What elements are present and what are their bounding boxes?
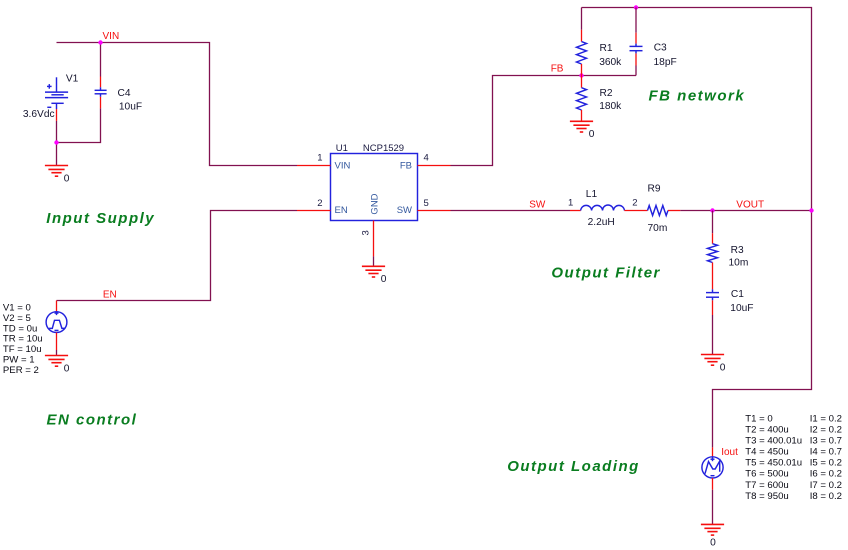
- node FB junction: [579, 73, 583, 77]
- wire VOUT rail: [680, 210, 811, 212]
- svg-text:V2 = 5: V2 = 5: [3, 313, 31, 324]
- pin 4: [418, 153, 451, 166]
- node C3 top junction: [634, 5, 638, 9]
- VPULSE parameters: [3, 303, 43, 376]
- wire battery to C4 bottom: [57, 108, 101, 142]
- node VOUT right rail junction: [809, 208, 813, 212]
- wire SW net: [451, 210, 571, 212]
- svg-text:5: 5: [424, 198, 429, 209]
- svg-text:R2: R2: [600, 88, 613, 99]
- svg-text:Input Supply: Input Supply: [46, 210, 155, 227]
- svg-text:0: 0: [710, 538, 716, 549]
- wire R3 branch: [712, 211, 714, 234]
- svg-text:10uF: 10uF: [119, 101, 142, 112]
- wire C4 top branch: [100, 43, 102, 77]
- current source Iout: [702, 447, 723, 524]
- svg-text:2: 2: [632, 197, 637, 208]
- svg-text:2: 2: [317, 198, 322, 209]
- svg-text:Output Filter: Output Filter: [551, 265, 661, 282]
- svg-text:0: 0: [720, 362, 726, 373]
- svg-text:10m: 10m: [729, 258, 749, 269]
- svg-text:EN: EN: [335, 205, 348, 216]
- svg-text:GND: GND: [370, 193, 381, 214]
- svg-text:T3 = 400.01u: T3 = 400.01u: [745, 436, 802, 447]
- svg-text:SW: SW: [397, 205, 412, 216]
- Iout parameters: [745, 413, 842, 502]
- wire C3 bottom lead: [635, 66, 637, 76]
- svg-text:EN: EN: [103, 289, 117, 300]
- pin 1: [297, 153, 331, 166]
- pin 2: [297, 198, 331, 211]
- svg-text:V1: V1: [66, 73, 79, 84]
- resistor R3: [708, 233, 718, 289]
- pin 3: [361, 221, 374, 267]
- ground 0 (Iout): [701, 524, 724, 548]
- svg-text:I8 = 0.2: I8 = 0.2: [810, 491, 842, 502]
- svg-text:4: 4: [424, 153, 429, 164]
- svg-text:VIN: VIN: [103, 31, 120, 42]
- svg-text:C3: C3: [654, 43, 667, 54]
- svg-text:1: 1: [568, 197, 573, 208]
- resistor R9: [648, 206, 681, 216]
- wire VIN rail: [57, 43, 298, 166]
- svg-text:T6 = 500u: T6 = 500u: [745, 469, 788, 480]
- wire C3 top lead: [635, 8, 637, 33]
- svg-text:R1: R1: [600, 43, 613, 54]
- capacitor C4: [95, 77, 107, 109]
- wire FB net: [451, 76, 637, 166]
- wire battery bottom to ground: [56, 121, 58, 166]
- svg-text:I6 = 0.2: I6 = 0.2: [810, 469, 842, 480]
- svg-text:I1 = 0.2: I1 = 0.2: [810, 413, 842, 424]
- svg-text:I2 = 0.2: I2 = 0.2: [810, 424, 842, 435]
- svg-text:18pF: 18pF: [654, 57, 677, 68]
- svg-text:T1 = 0: T1 = 0: [745, 413, 772, 424]
- ground 0 (C1): [701, 355, 726, 374]
- voltage source VPULSE EN: [46, 301, 67, 356]
- svg-text:U1: U1: [336, 143, 348, 154]
- svg-text:PW = 1: PW = 1: [3, 354, 35, 365]
- svg-text:FB: FB: [400, 160, 412, 171]
- svg-text:3: 3: [361, 230, 372, 235]
- inductor L1: [570, 205, 648, 211]
- svg-text:FB: FB: [551, 64, 564, 75]
- svg-text:R3: R3: [731, 245, 744, 256]
- svg-text:I4 = 0.7: I4 = 0.7: [810, 447, 842, 458]
- svg-text:70m: 70m: [648, 223, 668, 234]
- svg-text:NCP1529: NCP1529: [363, 143, 404, 154]
- ground 0 (V1): [45, 166, 70, 185]
- svg-text:Output Loading: Output Loading: [507, 458, 640, 475]
- ground 0 (VPULSE): [45, 356, 70, 375]
- svg-text:TR = 10u: TR = 10u: [3, 334, 43, 345]
- ground 0 (FB divider): [570, 121, 595, 140]
- ground 0 (U1 pin3): [362, 266, 387, 285]
- node VIN junction: [98, 40, 102, 44]
- svg-text:T4 = 450u: T4 = 450u: [745, 447, 788, 458]
- svg-text:Iout: Iout: [721, 447, 738, 458]
- svg-text:C1: C1: [731, 289, 744, 300]
- svg-text:0: 0: [381, 274, 387, 285]
- svg-text:1: 1: [317, 153, 322, 164]
- svg-text:360k: 360k: [599, 57, 622, 68]
- svg-text:T2 = 400u: T2 = 400u: [745, 424, 788, 435]
- svg-text:FB network: FB network: [649, 88, 746, 105]
- svg-text:PER = 2: PER = 2: [3, 365, 39, 376]
- svg-text:VOUT: VOUT: [736, 199, 764, 210]
- svg-text:EN control: EN control: [47, 412, 138, 429]
- svg-text:3.6Vdc: 3.6Vdc: [23, 109, 55, 120]
- svg-text:T7 = 600u: T7 = 600u: [745, 480, 788, 491]
- svg-text:I7 = 0.2: I7 = 0.2: [810, 480, 842, 491]
- svg-text:0: 0: [589, 129, 595, 140]
- svg-text:0: 0: [64, 363, 70, 374]
- wire EN rail: [57, 211, 298, 301]
- resistor R2: [577, 76, 587, 122]
- wire top rail + right rail + bottom rail: [582, 8, 812, 448]
- svg-text:T8 = 950u: T8 = 950u: [745, 491, 788, 502]
- resistor R1: [577, 30, 587, 76]
- svg-text:0: 0: [64, 173, 70, 184]
- pin 5: [418, 198, 451, 211]
- svg-text:I3 = 0.7: I3 = 0.7: [810, 436, 842, 447]
- svg-text:2.2uH: 2.2uH: [588, 217, 615, 228]
- svg-text:R9: R9: [648, 184, 661, 195]
- svg-text:L1: L1: [586, 189, 598, 200]
- wire R1 top stub: [581, 8, 583, 30]
- capacitor C3: [630, 33, 643, 66]
- svg-text:SW: SW: [529, 200, 546, 211]
- svg-text:10uF: 10uF: [730, 303, 753, 314]
- node VOUT junction: [710, 208, 714, 212]
- svg-text:C4: C4: [118, 88, 131, 99]
- svg-text:VIN: VIN: [335, 160, 351, 171]
- svg-text:I5 = 0.2: I5 = 0.2: [810, 458, 842, 469]
- voltage source V1: [45, 77, 68, 121]
- node battery bottom junction: [54, 140, 58, 144]
- op-amp U1 NCP1529: [331, 143, 418, 221]
- capacitor C1: [706, 289, 719, 354]
- svg-text:T5 = 450.01u: T5 = 450.01u: [745, 458, 802, 469]
- svg-text:180k: 180k: [599, 101, 622, 112]
